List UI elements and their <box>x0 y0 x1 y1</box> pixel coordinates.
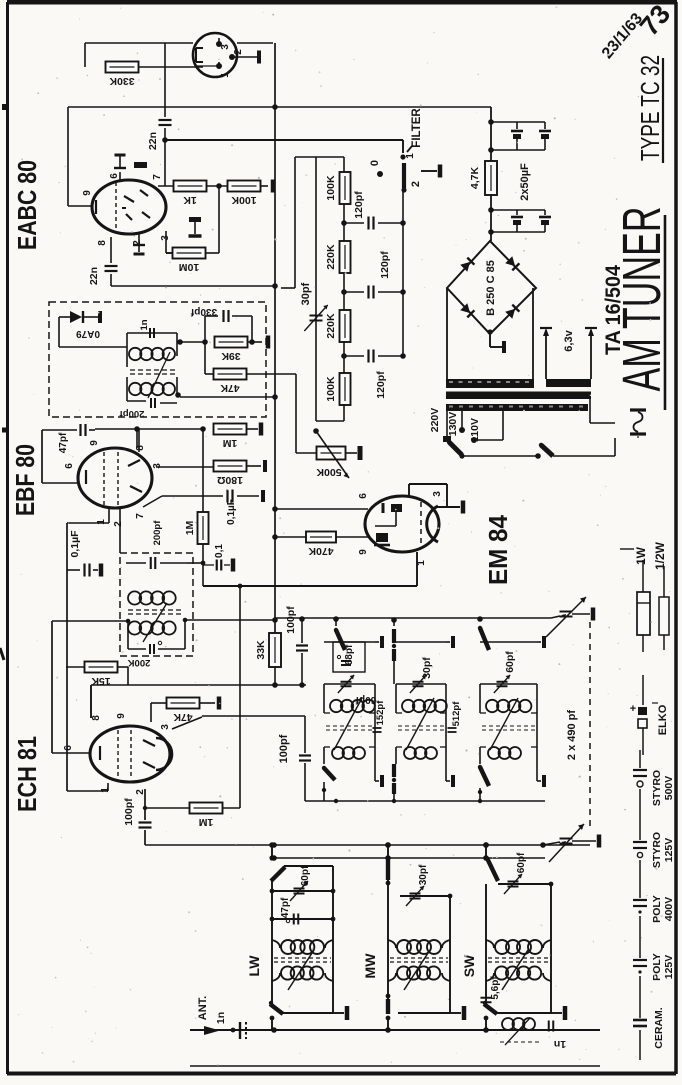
svg-text:STYRO: STYRO <box>651 770 663 806</box>
svg-text:1W: 1W <box>634 546 648 565</box>
svg-text:200pf: 200pf <box>152 520 163 546</box>
svg-text:6: 6 <box>63 745 74 751</box>
svg-text:3: 3 <box>432 491 443 497</box>
svg-text:10M: 10M <box>179 261 200 273</box>
svg-text:0,1µF: 0,1µF <box>226 499 237 525</box>
svg-text:6: 6 <box>358 493 369 499</box>
svg-text:POLY: POLY <box>651 895 663 923</box>
svg-text:47K: 47K <box>220 382 240 394</box>
svg-text:1: 1 <box>405 153 416 159</box>
svg-text:1/2W: 1/2W <box>653 541 667 570</box>
svg-text:0,1: 0,1 <box>214 544 225 558</box>
svg-text:120pf: 120pf <box>353 191 365 219</box>
svg-text:1M: 1M <box>222 437 237 449</box>
svg-text:LW: LW <box>246 955 262 977</box>
svg-text:9: 9 <box>358 549 369 555</box>
svg-text:500K: 500K <box>316 466 342 478</box>
svg-text:100pf: 100pf <box>285 606 297 634</box>
svg-text:60pf: 60pf <box>516 852 527 873</box>
svg-text:512pf: 512pf <box>451 701 462 727</box>
svg-text:125V: 125V <box>663 838 675 863</box>
svg-text:100K: 100K <box>231 194 257 206</box>
svg-text:152pf: 152pf <box>375 700 386 726</box>
svg-text:9: 9 <box>89 440 100 446</box>
svg-text:22n: 22n <box>88 267 100 285</box>
svg-text:60pf: 60pf <box>355 694 376 705</box>
svg-text:60pf: 60pf <box>504 651 516 673</box>
svg-text:330K: 330K <box>109 75 135 87</box>
svg-text:0A79: 0A79 <box>76 328 100 339</box>
svg-text:1: 1 <box>96 519 107 525</box>
svg-text:4,7K: 4,7K <box>469 166 481 189</box>
svg-text:FILTER: FILTER <box>411 108 423 148</box>
svg-text:400V: 400V <box>663 897 675 922</box>
svg-text:100pf: 100pf <box>278 734 290 763</box>
svg-text:30pf: 30pf <box>418 864 429 885</box>
svg-text:8: 8 <box>91 715 102 721</box>
svg-text:1n: 1n <box>215 1012 227 1024</box>
svg-text:100K: 100K <box>325 376 337 402</box>
svg-text:EM 84: EM 84 <box>483 515 513 585</box>
svg-text:130V: 130V <box>447 412 459 437</box>
svg-text:60pf: 60pf <box>300 865 311 886</box>
svg-text:3: 3 <box>152 463 163 469</box>
svg-text:120pf: 120pf <box>379 251 391 279</box>
svg-text:220K: 220K <box>325 313 337 339</box>
svg-text:47pf: 47pf <box>280 897 291 918</box>
svg-text:6: 6 <box>109 173 120 179</box>
svg-text:MW: MW <box>362 953 378 979</box>
svg-text:B 250 C 85: B 250 C 85 <box>485 260 497 316</box>
svg-text:3: 3 <box>220 44 231 50</box>
svg-text:500V: 500V <box>663 776 675 801</box>
svg-text:100K: 100K <box>325 175 337 201</box>
svg-text:EBF 80: EBF 80 <box>10 444 40 516</box>
svg-text:1M: 1M <box>184 520 196 535</box>
svg-text:22n: 22n <box>147 132 159 150</box>
svg-text:30pf: 30pf <box>421 657 433 679</box>
svg-text:1: 1 <box>100 787 111 793</box>
svg-text:15K: 15K <box>91 675 111 687</box>
svg-text:220V: 220V <box>429 408 441 433</box>
svg-text:9: 9 <box>116 713 127 719</box>
svg-text:CERAM.: CERAM. <box>653 1007 665 1048</box>
svg-text:2: 2 <box>233 49 244 55</box>
svg-text:ECH 81: ECH 81 <box>12 736 42 812</box>
svg-text:8: 8 <box>97 240 108 246</box>
svg-text:7: 7 <box>135 513 146 519</box>
svg-text:100pf: 100pf <box>123 798 135 826</box>
svg-text:1n: 1n <box>139 319 150 330</box>
svg-text:0,1µF: 0,1µF <box>69 530 81 558</box>
svg-text:ANT.: ANT. <box>197 996 209 1020</box>
svg-text:2x50µF: 2x50µF <box>519 163 531 201</box>
svg-text:6: 6 <box>64 463 75 469</box>
svg-text:120pf: 120pf <box>375 371 387 399</box>
svg-text:POLY: POLY <box>651 953 663 981</box>
svg-text:SW: SW <box>461 954 477 977</box>
svg-text:220K: 220K <box>325 244 337 270</box>
svg-text:30pf: 30pf <box>300 282 312 305</box>
svg-text:200pf: 200pf <box>119 408 145 419</box>
svg-text:3: 3 <box>160 724 171 730</box>
svg-text:2: 2 <box>410 181 422 187</box>
svg-text:200K: 200K <box>128 657 151 668</box>
svg-text:1M: 1M <box>198 816 213 828</box>
svg-text:9: 9 <box>82 190 93 196</box>
svg-text:330pf: 330pf <box>190 306 217 317</box>
svg-text:2: 2 <box>113 521 124 527</box>
svg-text:EABC 80: EABC 80 <box>12 160 42 250</box>
svg-text:33K: 33K <box>255 640 267 660</box>
svg-text:7: 7 <box>152 174 163 180</box>
svg-text:0: 0 <box>369 160 381 166</box>
svg-text:125V: 125V <box>663 955 675 980</box>
svg-text:1: 1 <box>220 72 231 78</box>
svg-text:AM TUNER: AM TUNER <box>612 207 672 392</box>
svg-text:ELKO: ELKO <box>657 704 669 735</box>
svg-text:5,6pf: 5,6pf <box>490 976 501 1000</box>
svg-text:1K: 1K <box>183 194 197 206</box>
svg-text:STYRO: STYRO <box>651 832 663 868</box>
svg-text:TYPE TC 32: TYPE TC 32 <box>635 55 665 161</box>
svg-text:6,3v: 6,3v <box>563 329 575 351</box>
svg-text:180Ω: 180Ω <box>217 474 243 486</box>
svg-text:+: + <box>630 703 636 715</box>
svg-text:1n: 1n <box>554 1038 566 1050</box>
svg-text:39K: 39K <box>221 350 241 362</box>
svg-text:2 x 490 pf: 2 x 490 pf <box>566 710 578 760</box>
svg-text:470K: 470K <box>308 545 334 557</box>
svg-text:47pf: 47pf <box>58 432 69 453</box>
